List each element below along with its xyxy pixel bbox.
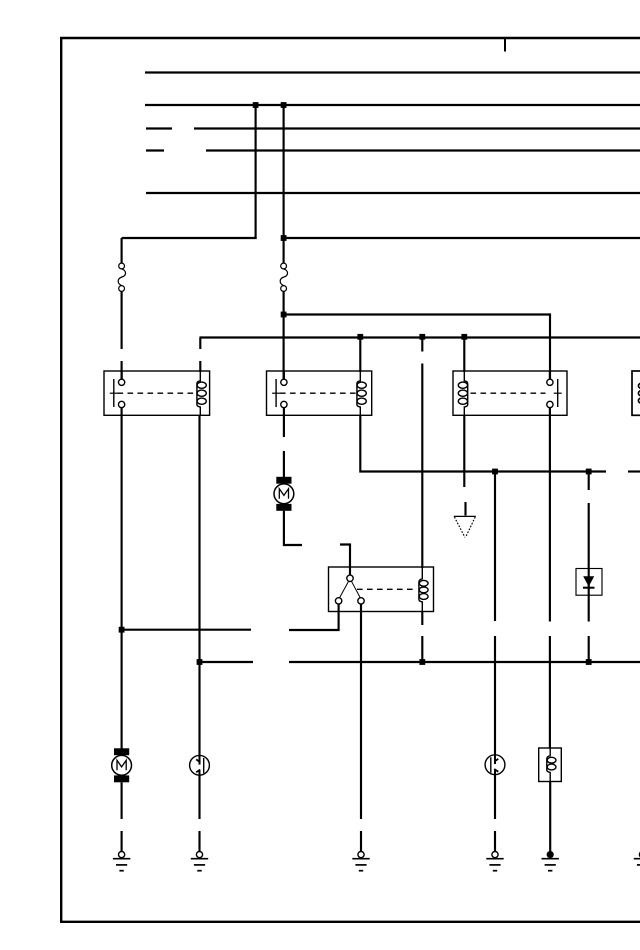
- wire below lamp L1: [198, 775, 200, 819]
- motor M2: [112, 748, 132, 782]
- wire lamp feed lower: [494, 636, 496, 755]
- relay K1 coil: [197, 371, 206, 415]
- node junction K1-interior lamp rail: [119, 627, 125, 633]
- wire K5 coil down: [421, 612, 423, 626]
- wire bus line 4 left stub: [146, 149, 164, 151]
- relay K3 switch contacts: [547, 371, 562, 415]
- wire K5 NO contact down: [360, 604, 362, 819]
- wire K3 switch down lower: [549, 636, 551, 748]
- wire K1 coil down: [198, 415, 200, 756]
- wire bus line 4: [206, 149, 640, 151]
- relay K5 actuating dashed link: [357, 588, 414, 590]
- wire interior lamp rail left: [122, 629, 251, 631]
- wire K5 NC contact down-left: [289, 604, 339, 630]
- node junction rail471-lamp: [492, 469, 498, 475]
- off-page connector arrow: [454, 516, 476, 537]
- solenoid L3 case: [539, 748, 562, 782]
- wire bus line 2: [145, 104, 640, 106]
- solenoid L3 coil: [547, 748, 556, 782]
- node junction rail-K2 coil: [357, 334, 363, 340]
- node junction K1 coil-ground rail: [197, 659, 203, 665]
- ground G5: [542, 851, 559, 871]
- wire ground stub L1: [198, 831, 200, 852]
- node junction diode-ground rail: [586, 659, 592, 665]
- wire to off-page arrow: [464, 502, 466, 516]
- relay K4 case: [632, 371, 640, 415]
- relay K5 switch legs: [340, 581, 361, 597]
- relay K1 case: [104, 371, 210, 415]
- ground G2: [191, 852, 208, 871]
- wire below lamp L2: [494, 775, 496, 820]
- relay K5 case: [329, 567, 434, 612]
- wire horizontal feed: [122, 237, 257, 239]
- relay K5 coil: [419, 567, 428, 611]
- node junction rail471-diode: [586, 469, 592, 475]
- lamp L1: [190, 755, 210, 775]
- wire vertical drop right: [283, 105, 285, 263]
- motor M1: [274, 477, 294, 511]
- node junction bus6: [281, 235, 287, 241]
- relay K1 actuating dashed link: [118, 392, 195, 394]
- relay K2 actuating dashed link: [280, 392, 357, 394]
- wire K3 coil down: [463, 415, 465, 487]
- wire ground stub K5: [360, 831, 362, 852]
- wire K1 switch to motor M2: [121, 415, 123, 749]
- node junction on bus 2 left: [253, 102, 259, 108]
- relay K2 case: [267, 371, 372, 415]
- wire below F2: [283, 292, 285, 380]
- wire into K2 coil: [359, 338, 361, 373]
- relay K1 switch contacts: [110, 371, 125, 415]
- ground G1: [113, 852, 130, 871]
- wire below rail junction: [421, 338, 423, 352]
- wire K3 switch down: [549, 415, 551, 622]
- wire K2 switch down: [283, 415, 285, 437]
- wire below motor M2: [121, 782, 123, 819]
- wire ground rail left: [200, 661, 254, 663]
- relay K3 actuating dashed link: [471, 392, 546, 394]
- relay K2 coil: [357, 371, 366, 415]
- relay K5 common contact: [347, 575, 353, 581]
- wire into K3 coil: [463, 338, 465, 373]
- node junction rail-K3 coil: [461, 334, 467, 340]
- wire fuse1 feed: [121, 238, 123, 263]
- wire K2 coil down: [360, 415, 606, 472]
- node junction on bus 2 right: [281, 102, 287, 108]
- wire ignition rail: [200, 336, 640, 338]
- wire ground stub L2: [494, 831, 496, 852]
- wire ground stub M2: [121, 831, 123, 852]
- node junction K5 coil-ground rail: [419, 659, 425, 665]
- wire ground rail right: [289, 661, 640, 663]
- relay K4 coil (clipped): [638, 383, 640, 404]
- wire rail corner to K1 coil: [199, 338, 201, 350]
- wire diode feed lower: [588, 503, 590, 569]
- relay K3 coil: [458, 371, 467, 415]
- wire into motor M1: [283, 451, 285, 477]
- wire below diode: [588, 595, 590, 621]
- node junction rail-K5 coil: [419, 334, 425, 340]
- wire bus line 3: [194, 127, 640, 129]
- wire into K1 switch: [121, 361, 123, 380]
- wire branch to K3 switch: [284, 315, 550, 380]
- wire down to K5 coil: [421, 364, 423, 569]
- wire diode to ground rail: [588, 636, 590, 662]
- wire K5 coil to ground rail: [421, 636, 423, 662]
- diode D1: [583, 569, 595, 596]
- wire bus line 3 left stub: [146, 127, 172, 129]
- lamp L2: [485, 755, 505, 775]
- wire below F1: [121, 292, 123, 350]
- diode D1 case: [576, 569, 602, 596]
- ground G3: [352, 852, 369, 871]
- relay K5 contact NC: [335, 598, 341, 604]
- wire lamp feed upper: [494, 472, 496, 622]
- wire rail 471 right stub: [628, 470, 640, 472]
- relay K2 switch contacts: [272, 371, 287, 415]
- fuse F2: [280, 263, 287, 291]
- wire M1 to K5 common: [284, 511, 302, 545]
- wire below solenoid: [549, 782, 551, 854]
- relay K3 case: [453, 371, 567, 415]
- wire diode feed upper: [588, 472, 590, 491]
- ground G6 (partial): [634, 852, 640, 871]
- wire bus line 1: [145, 71, 640, 73]
- wire K5 common feed: [340, 545, 350, 576]
- ground G4: [486, 852, 503, 871]
- wire into K1 coil: [199, 361, 201, 372]
- wire bus line 6: [284, 237, 640, 239]
- wire vertical drop left: [255, 105, 257, 239]
- relay K5 contact NO: [358, 598, 364, 604]
- fuse F1: [118, 263, 125, 291]
- wire bus line 5: [146, 192, 640, 194]
- node junction F2 branch: [281, 312, 287, 318]
